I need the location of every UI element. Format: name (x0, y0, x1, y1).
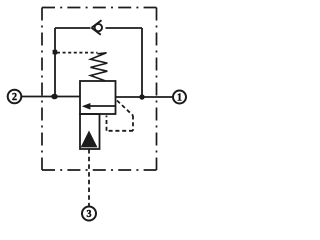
wire: dashed pilot line to spring (57, 52, 98, 54)
svg-text:3: 3 (87, 209, 92, 220)
wire: dashed drain line to port 3 (88, 149, 90, 206)
enclosure dash-dot boundary (42, 8, 157, 171)
poppet triangle (filled) (81, 131, 98, 148)
spring (91, 53, 108, 81)
port 2 (8, 90, 22, 104)
port 3 (82, 207, 96, 221)
wire: dashed pilot loop right of valve (107, 101, 134, 131)
wire: left vertical riser x=55 (54, 28, 56, 97)
valve flow arrow (left-pointing) (82, 103, 116, 110)
svg-text:1: 1 (177, 93, 182, 104)
node: junction at right main line (139, 94, 144, 99)
svg-text:2: 2 (12, 92, 17, 103)
node: junction at left main line (51, 94, 58, 100)
wire: check valve to right corner (106, 27, 143, 29)
port 1 (173, 91, 186, 104)
valve body envelope (80, 81, 116, 114)
wire: port 2 to valve left (22, 96, 81, 98)
wire: right vertical riser x=142 (141, 28, 143, 97)
node: pilot tap junction (square) (53, 50, 58, 55)
wire: valve right to port 1 (116, 96, 174, 98)
wire: top horizontal to check valve (55, 27, 91, 29)
check valve V1 (ball and seat) (92, 20, 103, 35)
seat block below valve (80, 114, 100, 149)
